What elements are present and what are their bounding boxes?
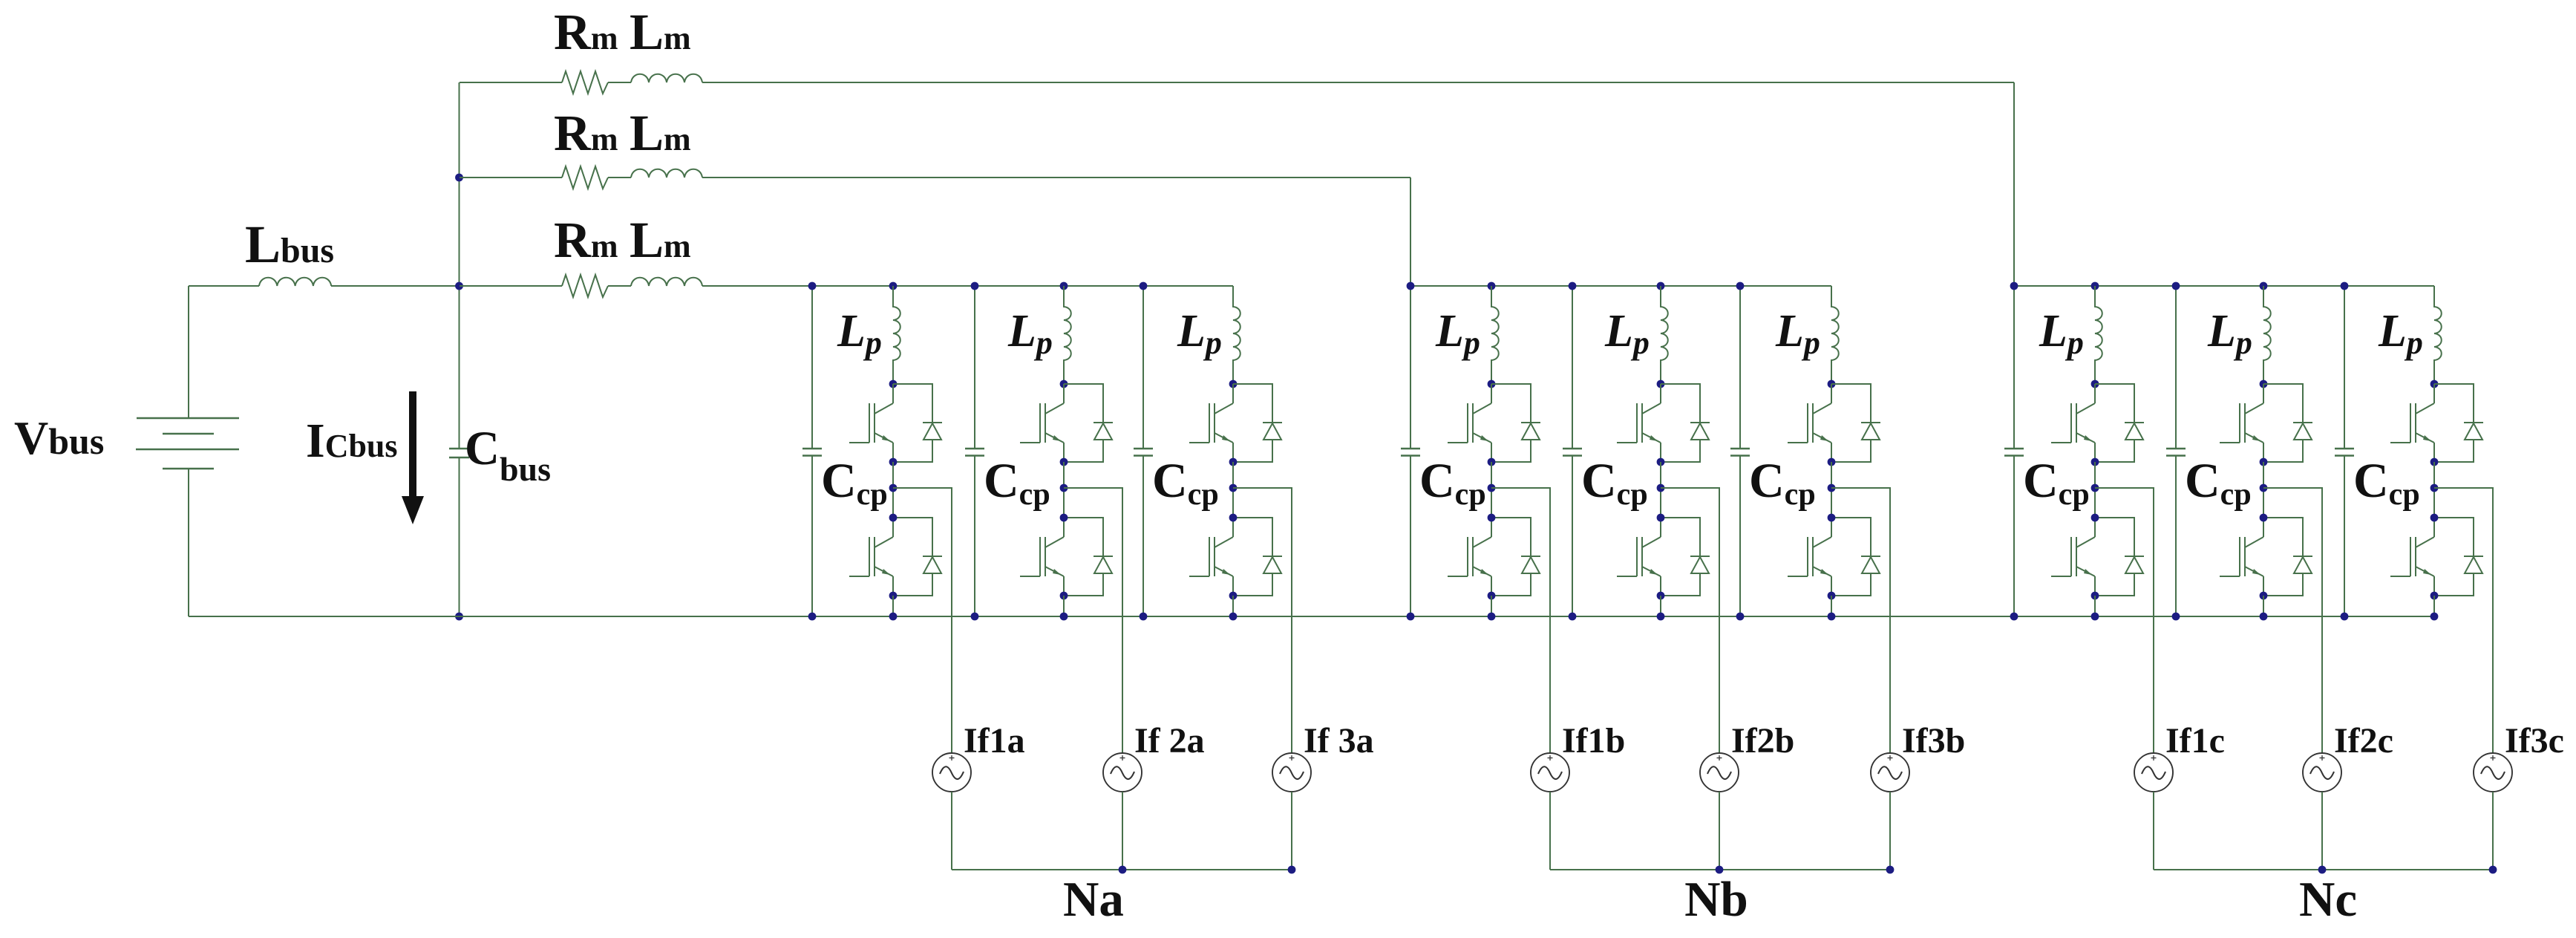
wire: branch 3 lead-in [460,285,562,287]
current source If1b [1531,753,1569,792]
svg-text:Nb: Nb [1684,872,1748,927]
capacitor Ccp (C1) [2004,449,2024,456]
junction (top bus / IGBT rail C2) [2260,282,2268,290]
junction (phase output node B2) [1657,484,1665,492]
diode DA2L (lower A2) [1064,518,1113,596]
junction (bottom bus / IGBT rail C1) [2091,613,2099,621]
junction (bottom bus / Ccp rail A1) [808,613,817,621]
junction (top bus / Ccp rail C2) [2172,282,2180,290]
junction (top bus / IGBT rail C1) [2091,282,2099,290]
IGBT QA1H (upper A1) [849,384,893,462]
wire: Ccp rail upper (C2) [2175,286,2177,449]
voltage source Vbus (battery) [136,286,239,616]
junction (top bus / IGBT rail B1) [1488,282,1496,290]
IGBT QC2H (upper C2) [2220,384,2263,462]
wire: Ccp rail upper (A3) [1142,286,1144,449]
diode DA1L (lower A1) [893,518,942,596]
junction (phase output node B3) [1828,484,1836,492]
junction (lower IGBT collector C1) [2091,514,2099,522]
wire: top bus group B [1410,285,1831,287]
inductor Lm (branch 3) [631,278,702,286]
junction (top bus / IGBT rail A1) [889,282,898,290]
wire: Ccp rail upper (B1) [1410,286,1411,449]
junction (lower IGBT emitter node C3) [2430,592,2439,600]
svg-text:Nc: Nc [2299,872,2357,927]
svg-text:If1c: If1c [2165,721,2225,761]
wire: bottom bus (negative rail) [189,616,2434,617]
junction (top bus / Ccp rail A2) [971,282,979,290]
wire: lower emitter to bottom bus (C3) [2433,596,2435,616]
wire: current source to net Na (A1) [951,792,952,870]
wire: Rm to Lm (branch 3) [608,285,631,287]
wire: output to current source (B2) [1661,488,1719,753]
junction (phase output node A2) [1060,484,1068,492]
current source If3c [2474,753,2512,792]
junction (phase output node C1) [2091,484,2099,492]
junction (lower IGBT collector A3) [1229,514,1238,522]
wire: output to current source (C3) [2434,488,2493,753]
diode DB3H (upper B3) [1831,384,1880,462]
wire: output to current source (A1) [893,488,952,753]
junction (bottom bus / IGBT rail A3) [1229,613,1238,621]
junction (lower IGBT emitter node C1) [2091,592,2099,600]
wire: Ccp rail lower (C3) [2344,456,2345,617]
junction (bottom bus / Ccp rail C3) [2341,613,2349,621]
junction (phase output node C3) [2430,484,2439,492]
capacitor Ccp (B3) [1730,449,1750,456]
wire: mid rail (B1) [1491,462,1492,518]
junction (top bus / Ccp rail C1) [2010,282,2018,290]
junction (lower IGBT emitter node B1) [1488,592,1496,600]
capacitor Ccp (C2) [2166,449,2186,456]
junction (Lp / upper IGBT collector B3) [1828,380,1836,388]
wire: lower emitter to bottom bus (B2) [1660,596,1661,616]
IGBT QB1L (lower B1) [1448,518,1491,596]
inductor Lm (branch 1) [631,74,702,82]
junction (lower IGBT emitter node C2) [2260,592,2268,600]
wire: top bus group C [2014,285,2434,287]
junction (upper IGBT emitter node A2) [1060,458,1068,466]
wire: branch 2 to group feed [702,177,1410,178]
wire: mid rail (A2) [1063,462,1065,518]
wire: Rm to Lm (branch 1) [608,82,631,83]
wire: current source to net Nb (B2) [1719,792,1720,870]
wire: lower emitter to bottom bus (B3) [1831,596,1832,616]
junction (Lp / upper IGBT collector C2) [2260,380,2268,388]
diode DB1H (upper B1) [1491,384,1540,462]
junction (lower IGBT collector C2) [2260,514,2268,522]
inductor Lp (C2) [2263,286,2271,384]
junction (top bus / Ccp rail B1) [1407,282,1415,290]
wire: Ccp rail lower (A1) [811,456,813,617]
wire: current source to net Na (A3) [1291,792,1292,870]
IGBT QB2H (upper B2) [1617,384,1661,462]
wire: mid rail (C1) [2094,462,2096,518]
junction (top bus / Ccp rail A3) [1140,282,1148,290]
wire: current source to net Nc (C2) [2321,792,2323,870]
wire: net Nc link [2154,869,2493,870]
wire: Ccp rail lower (A2) [974,456,975,617]
junction (bottom bus / Ccp rail A2) [971,613,979,621]
junction (net Nc mid) [2318,866,2327,874]
junction (upper IGBT emitter node B1) [1488,458,1496,466]
current source If2c [2303,753,2341,792]
current source If2b [1700,753,1739,792]
wire: output to current source (A3) [1233,488,1292,753]
wire: junction riser x=618 [459,82,460,449]
wire: mid rail (B3) [1831,462,1832,518]
junction (bottom bus / IGBT rail A2) [1060,613,1068,621]
wire: lower emitter to bottom bus (C2) [2263,596,2264,616]
junction (bottom bus / IGBT rail B2) [1657,613,1665,621]
junction (lower IGBT collector A2) [1060,514,1068,522]
junction (lower IGBT collector C3) [2430,514,2439,522]
IGBT QC3H (upper C3) [2390,384,2434,462]
current source If 2a [1103,753,1142,792]
capacitor Ccp (B1) [1401,449,1420,456]
inductor Lp (C3) [2434,286,2442,384]
wire: Ccp rail upper (B2) [1572,286,1573,449]
junction (phase output node A1) [889,484,898,492]
wire: Ccp rail lower (B1) [1410,456,1411,617]
inductor Lp (A1) [893,286,900,384]
current source If1a [932,753,971,792]
svg-text:Na: Na [1063,872,1124,927]
diode DC1L (lower C1) [2095,518,2144,596]
junction (net Na right) [1288,866,1296,874]
capacitor Ccp (A2) [965,449,984,456]
junction (bottom bus / Ccp rail B3) [1736,613,1745,621]
junction (upper IGBT emitter node B3) [1828,458,1836,466]
IGBT QC2L (lower C2) [2220,518,2263,596]
svg-text:If3c: If3c [2505,721,2564,761]
junction (Lp / upper IGBT collector B2) [1657,380,1665,388]
junction (lower IGBT emitter node A1) [889,592,898,600]
junction (Lp / upper IGBT collector A2) [1060,380,1068,388]
resistor Rm (branch 2) [562,166,608,189]
junction (upper IGBT emitter node C2) [2260,458,2268,466]
IGBT QC1L (lower C1) [2051,518,2095,596]
junction (phase output node C2) [2260,484,2268,492]
diode DB3L (lower B3) [1831,518,1880,596]
inductor Lp (B3) [1831,286,1839,384]
capacitor Ccp (A1) [802,449,822,456]
junction (top bus / IGBT rail A2) [1060,282,1068,290]
junction (lower IGBT collector A1) [889,514,898,522]
wire: output to current source (C2) [2263,488,2322,753]
inductor Lp (B1) [1491,286,1499,384]
diode DA3L (lower A3) [1233,518,1282,596]
junction (lower IGBT emitter node B3) [1828,592,1836,600]
junction (phase output node A3) [1229,484,1238,492]
current arrow ICbus [402,391,424,524]
junction (upper IGBT emitter node B2) [1657,458,1665,466]
wire: Ccp rail upper (C3) [2344,286,2345,449]
diode DC3L (lower C3) [2434,518,2483,596]
IGBT QA3L (lower A3) [1189,518,1233,596]
diode DC1H (upper C1) [2095,384,2144,462]
wire: top bus group A [702,285,1233,287]
diode DB1L (lower B1) [1491,518,1540,596]
wire: mid rail (A1) [892,462,894,518]
wire: Lbus to node [331,285,460,287]
junction (top bus / Ccp rail C3) [2341,282,2349,290]
wire: Ccp rail lower (B2) [1572,456,1573,617]
junction (branch 2 tap) [455,174,463,182]
inductor Lp (C1) [2095,286,2102,384]
junction (phase output node B1) [1488,484,1496,492]
junction (bottom bus / Ccp rail C1) [2010,613,2018,621]
wire: Ccp rail upper (A1) [811,286,813,449]
junction (lower IGBT collector B1) [1488,514,1496,522]
junction (lower IGBT emitter node A3) [1229,592,1238,600]
wire: Rm to Lm (branch 2) [608,177,631,178]
inductor Lbus [259,278,331,286]
IGBT QB2L (lower B2) [1617,518,1661,596]
capacitor Ccp (C3) [2335,449,2354,456]
svg-text:If3b: If3b [1902,721,1965,761]
junction (top bus / IGBT rail B2) [1657,282,1665,290]
diode DA2H (upper A2) [1064,384,1113,462]
resistor Rm (branch 3) [562,275,608,297]
junction (Lp / upper IGBT collector C1) [2091,380,2099,388]
diode DC2L (lower C2) [2263,518,2312,596]
wire: mid rail (C2) [2263,462,2264,518]
wire: output to current source (A2) [1064,488,1122,753]
diode DA1H (upper A1) [893,384,942,462]
junction (main node) [455,282,463,290]
wire: current source to net Nc (C3) [2492,792,2494,870]
junction (Lp / upper IGBT collector B1) [1488,380,1496,388]
IGBT QA2H (upper A2) [1020,384,1064,462]
junction (net Nb mid) [1716,866,1724,874]
junction (bottom bus / IGBT rail B3) [1828,613,1836,621]
junction (net Nb right) [1886,866,1895,874]
wire: output to current source (B3) [1831,488,1890,753]
wire: current source to net Nb (B3) [1889,792,1891,870]
IGBT QB3L (lower B3) [1788,518,1831,596]
junction (lower IGBT collector B3) [1828,514,1836,522]
wire: lower emitter to bottom bus (C1) [2094,596,2096,616]
wire: branch 1 to group feed [702,82,2014,83]
junction (lower IGBT collector B2) [1657,514,1665,522]
junction (bottom bus / IGBT rail B1) [1488,613,1496,621]
wire: Ccp rail upper (C1) [2013,286,2015,449]
current source If3b [1871,753,1909,792]
IGBT QC1H (upper C1) [2051,384,2095,462]
wire: current source to net Na (A2) [1122,792,1123,870]
capacitor Ccp (B2) [1563,449,1582,456]
diode DB2L (lower B2) [1661,518,1710,596]
junction (top bus / Ccp rail B3) [1736,282,1745,290]
wire: feed drop x=1900 [1410,177,1411,286]
wire: net Nb link [1550,869,1890,870]
IGBT QA3H (upper A3) [1189,384,1233,462]
wire: Ccp rail lower (A3) [1142,456,1144,617]
junction (bottom bus / Ccp rail B2) [1569,613,1577,621]
junction (bottom bus / IGBT rail C3) [2430,613,2439,621]
junction (upper IGBT emitter node C3) [2430,458,2439,466]
inductor Lp (A3) [1233,286,1240,384]
junction (bottom bus / Ccp rail C2) [2172,613,2180,621]
wire: lower emitter to bottom bus (A1) [892,596,894,616]
junction (upper IGBT emitter node C1) [2091,458,2099,466]
wire: branch 1 lead-in [460,82,562,83]
junction (upper IGBT emitter node A3) [1229,458,1238,466]
junction (Lp / upper IGBT collector A1) [889,380,898,388]
current source If 3a [1272,753,1311,792]
IGBT QB3H (upper B3) [1788,384,1831,462]
junction (top bus / Ccp rail B2) [1569,282,1577,290]
current source If1c [2134,753,2173,792]
resistor Rm (branch 1) [562,71,608,94]
junction (lower IGBT emitter node A2) [1060,592,1068,600]
diode DA3H (upper A3) [1233,384,1282,462]
junction (lower IGBT emitter node B2) [1657,592,1665,600]
wire: Ccp rail lower (C2) [2175,456,2177,617]
wire: current source to net Nb (B1) [1549,792,1551,870]
wire: output to current source (B1) [1491,488,1550,753]
capacitor Ccp (A3) [1134,449,1153,456]
wire: Ccp rail upper (A2) [974,286,975,449]
wire: battery top to Lbus [189,285,259,287]
svg-text:If 2a: If 2a [1134,721,1205,761]
wire: feed drop x=2713 [2013,82,2015,286]
IGBT QB1H (upper B1) [1448,384,1491,462]
junction (Lp / upper IGBT collector A3) [1229,380,1238,388]
wire: mid rail (C3) [2433,462,2435,518]
wire: Cbus to bottom bus [459,457,460,616]
wire: Ccp rail upper (B3) [1739,286,1741,449]
svg-text:If2b: If2b [1731,721,1794,761]
wire: mid rail (B2) [1660,462,1661,518]
wire: branch 2 lead-in [460,177,562,178]
wire: lower emitter to bottom bus (B1) [1491,596,1492,616]
junction (bottom bus / Ccp rail B1) [1407,613,1415,621]
wire: Ccp rail lower (C1) [2013,456,2015,617]
junction (bottom bus / IGBT rail C2) [2260,613,2268,621]
junction (bottom bus / Ccp rail A3) [1140,613,1148,621]
wire: mid rail (A3) [1232,462,1234,518]
inductor Lp (A2) [1064,286,1071,384]
junction (top bus / Ccp rail A1) [808,282,817,290]
wire: output to current source (C1) [2095,488,2154,753]
IGBT QC3L (lower C3) [2390,518,2434,596]
inductor Lm (branch 2) [631,169,702,177]
wire: Ccp rail lower (B3) [1739,456,1741,617]
capacitor Cbus [449,449,469,457]
wire: lower emitter to bottom bus (A2) [1063,596,1065,616]
IGBT QA1L (lower A1) [849,518,893,596]
junction (Cbus bottom) [455,613,463,621]
diode DC3H (upper C3) [2434,384,2483,462]
junction (upper IGBT emitter node A1) [889,458,898,466]
svg-text:If1b: If1b [1562,721,1625,761]
svg-text:If2c: If2c [2334,721,2393,761]
diode DC2H (upper C2) [2263,384,2312,462]
junction (net Na mid) [1119,866,1127,874]
diode DB2H (upper B2) [1661,384,1710,462]
IGBT QA2L (lower A2) [1020,518,1064,596]
svg-text:If 3a: If 3a [1304,721,1374,761]
junction (net Nc right) [2489,866,2497,874]
wire: net Na link [952,869,1292,870]
svg-text:If1a: If1a [964,721,1025,761]
wire: current source to net Nc (C1) [2153,792,2154,870]
junction (bottom bus / IGBT rail A1) [889,613,898,621]
wire: lower emitter to bottom bus (A3) [1232,596,1234,616]
inductor Lp (B2) [1661,286,1668,384]
junction (Lp / upper IGBT collector C3) [2430,380,2439,388]
